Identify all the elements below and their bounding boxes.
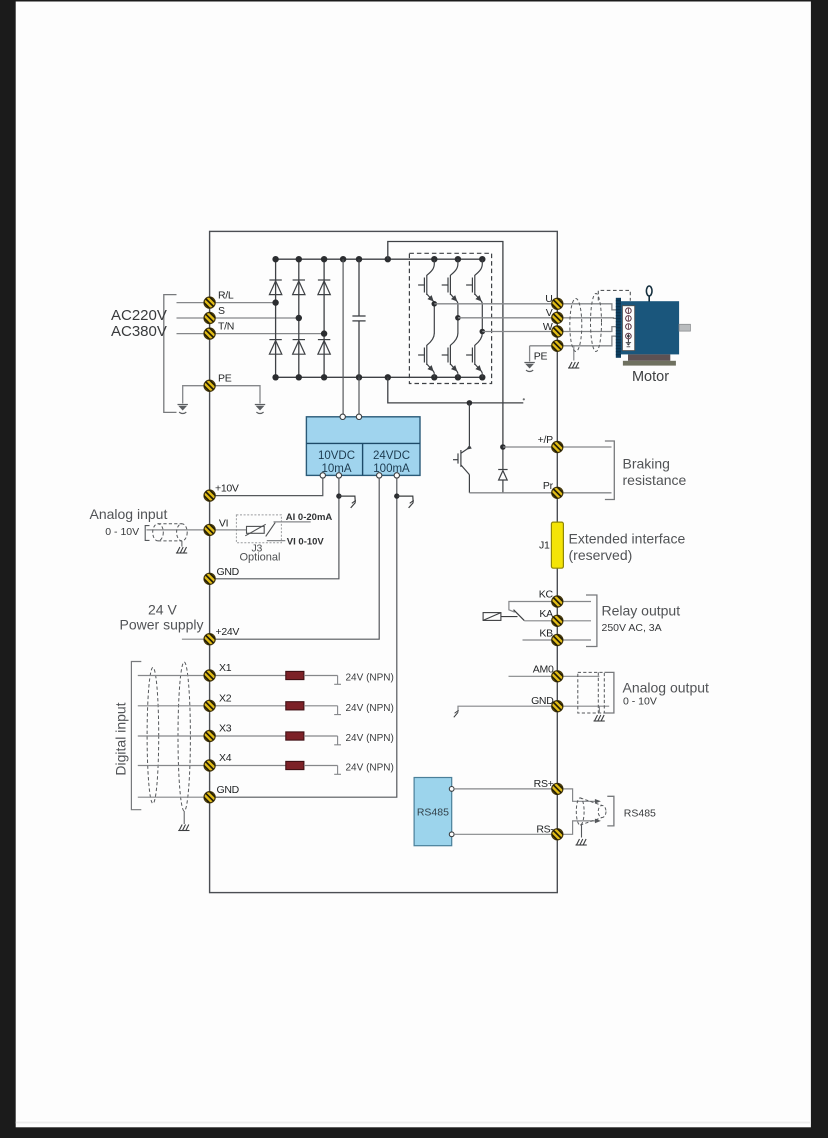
wire PE to motor	[557, 336, 625, 346]
rectifier column 1	[275, 259, 277, 377]
svg-text:VI 0-10V: VI 0-10V	[287, 536, 325, 547]
terminal +10V	[201, 487, 219, 505]
wire KA	[524, 620, 557, 622]
wire V to motor	[557, 317, 625, 320]
svg-text:+10V: +10V	[215, 483, 239, 495]
J3 resistor	[247, 526, 265, 533]
svg-text:X3: X3	[219, 723, 232, 735]
svg-text:24 V: 24 V	[148, 602, 177, 618]
svg-text:Optional: Optional	[240, 552, 281, 564]
svg-text:R/L: R/L	[218, 290, 234, 302]
pin RS+	[449, 787, 454, 792]
svg-text:J1: J1	[539, 540, 550, 552]
tiny end mark	[523, 398, 525, 400]
IGBT Q5 (W high)	[466, 259, 482, 304]
wire RS+ right	[557, 789, 597, 801]
terminal W	[548, 323, 566, 341]
pin PSU top left	[340, 414, 345, 419]
svg-text:24VDC: 24VDC	[373, 450, 410, 462]
page bottom shadow	[16, 1122, 811, 1124]
svg-text:+24V: +24V	[216, 626, 240, 638]
svg-text:KB: KB	[539, 628, 553, 640]
wire W high emitter lead	[481, 304, 483, 332]
terminal V	[548, 309, 566, 327]
diode D2 top col2	[293, 280, 305, 295]
DC- bottom bus	[276, 376, 483, 378]
svg-text:KC: KC	[539, 589, 554, 601]
DC+ top bus	[276, 258, 483, 260]
digital bundle ellipse 1	[147, 668, 159, 804]
svg-text:AC220V: AC220V	[111, 307, 167, 324]
relay coil K1	[483, 613, 517, 621]
wire +/P	[503, 446, 612, 448]
analog output connector dashed	[578, 672, 605, 713]
svg-text:Power supply: Power supply	[120, 617, 204, 633]
wire X2 row	[138, 705, 286, 707]
svg-text:AI 0-20mA: AI 0-20mA	[286, 512, 333, 523]
RS485 module box	[414, 778, 452, 846]
motor ribbed bar	[616, 298, 621, 358]
svg-text:RS485: RS485	[417, 807, 449, 819]
wire KB right stub	[557, 639, 591, 641]
wire GND analog right	[557, 705, 609, 707]
terminal S	[201, 309, 219, 327]
pin PSU 24V ret	[394, 473, 399, 478]
wire T/N input	[177, 333, 325, 335]
junction dots rectifier	[272, 256, 485, 380]
node W	[480, 329, 486, 335]
shield dashed corner	[598, 290, 630, 300]
terminal X3	[201, 727, 219, 745]
svg-text:GND: GND	[217, 784, 240, 796]
wire V phase	[458, 317, 557, 319]
braking resistance bracket	[605, 441, 614, 500]
IGBT module dashed box	[409, 253, 491, 383]
RS485 bracket	[607, 796, 614, 826]
resistor R2	[286, 702, 304, 710]
wire X3 to end	[304, 735, 338, 737]
wire 24V return to GND2	[210, 478, 397, 797]
switching power supply box	[306, 417, 420, 476]
terminal X2	[201, 697, 219, 715]
ground PE right	[255, 405, 265, 414]
pin PSU top right	[356, 414, 361, 419]
svg-text:0 - 10V: 0 - 10V	[623, 696, 657, 708]
node U	[432, 301, 438, 307]
wire VI to J3	[210, 529, 247, 531]
motor eye bolt	[648, 296, 650, 302]
terminal U	[548, 295, 566, 313]
motor base plate	[623, 361, 676, 366]
svg-text:+/P: +/P	[538, 434, 553, 446]
DC link capacitor C1	[352, 259, 365, 377]
svg-text:X4: X4	[219, 752, 232, 764]
wire GND2 left	[138, 796, 210, 798]
svg-text:AM0: AM0	[533, 663, 554, 675]
J3 switch arm	[266, 523, 276, 537]
IGBT Q4 (V low)	[457, 318, 459, 334]
pin PSU 24V out	[377, 473, 382, 478]
relay contact KC fixed	[509, 602, 557, 613]
J3 option box	[236, 515, 281, 543]
node V	[455, 315, 461, 321]
svg-text:T/N: T/N	[218, 321, 234, 333]
svg-text:24V (NPN): 24V (NPN)	[346, 763, 394, 774]
terminal +24V	[201, 630, 219, 648]
hook arrow analog gnd	[454, 710, 459, 717]
wire AM0 right	[557, 675, 599, 677]
AC input bracket	[164, 295, 177, 413]
svg-text:Analog output: Analog output	[623, 680, 710, 696]
svg-text:GND: GND	[531, 695, 554, 707]
wire U to motor	[557, 304, 625, 310]
svg-text:VI: VI	[219, 517, 228, 529]
pin PSU 10V ret	[336, 473, 341, 478]
terminal PE out	[548, 337, 566, 355]
svg-text:Analog input: Analog input	[90, 506, 168, 522]
analog output ground drop	[598, 706, 600, 713]
terminal GND	[201, 570, 219, 588]
wire W phase	[482, 331, 557, 333]
pin RS-	[449, 832, 454, 837]
RS485 shield ellipse big	[576, 798, 584, 825]
resistor R1	[286, 671, 304, 679]
wire DC- branch to brake chopper	[388, 377, 524, 403]
motor shaft	[679, 324, 690, 331]
svg-text:10VDC: 10VDC	[318, 450, 355, 462]
motor terminal panel	[622, 306, 634, 351]
resistor R4	[286, 761, 304, 769]
svg-text:24V (NPN): 24V (NPN)	[346, 703, 394, 714]
motor terminal screws	[626, 308, 632, 339]
rectifier column 2	[298, 259, 300, 377]
wire PE output left to ground	[530, 345, 558, 347]
end stub X4	[334, 766, 341, 775]
wire X1 row	[138, 675, 286, 677]
diode D6 bottom col3	[318, 340, 330, 355]
end stub X1	[334, 676, 341, 685]
terminal T/N	[201, 325, 219, 343]
svg-text:Digital input: Digital input	[113, 702, 129, 775]
wire X1 to end	[304, 675, 338, 677]
wire GND analog left with hook	[458, 706, 557, 712]
RS485 shield ellipse small	[598, 806, 606, 818]
svg-text:RS485: RS485	[624, 808, 656, 820]
svg-text:GND: GND	[217, 566, 240, 578]
wire DC- to power supply	[358, 377, 360, 417]
svg-text:Extended interface: Extended interface	[569, 531, 686, 547]
svg-text:X1: X1	[219, 662, 232, 674]
IGBT Q6 (W low)	[481, 332, 483, 334]
wire W to motor	[557, 327, 625, 332]
wire VI left	[147, 529, 210, 531]
terminal PE	[201, 377, 219, 395]
wire KA right stub	[557, 620, 591, 622]
analog output bracket	[605, 672, 614, 713]
svg-text:V: V	[546, 307, 553, 319]
digital bundle ground	[183, 811, 185, 824]
diode D1 top col1	[269, 280, 281, 295]
brake chopper transistor Q7	[453, 403, 472, 493]
motor panel internal ground	[627, 339, 629, 343]
RS485 shield cone lines	[580, 798, 602, 806]
hook internal 10V	[339, 496, 356, 508]
svg-text:Relay output: Relay output	[602, 603, 681, 619]
analog input shield bracket	[145, 526, 149, 541]
brake diode D7	[498, 447, 507, 493]
extended interface connector J1	[551, 522, 563, 568]
terminal RS+	[548, 780, 566, 798]
analog shield ground	[181, 541, 183, 547]
svg-text:RS-: RS-	[536, 823, 554, 835]
svg-text:X2: X2	[219, 692, 232, 704]
terminal KB	[548, 631, 566, 649]
terminal AM0	[548, 667, 566, 685]
wire X3 row	[138, 735, 286, 737]
main inverter box outline	[210, 231, 558, 892]
terminal GND analog	[548, 697, 566, 715]
terminal VI	[201, 521, 219, 539]
wire 10V return to GND	[210, 478, 339, 579]
wire +24V out	[210, 478, 380, 639]
ground shield motor cable	[568, 362, 579, 368]
IGBT Q2 (U low)	[433, 304, 435, 334]
power supply divider vertical	[362, 443, 364, 475]
ground analog output	[594, 715, 605, 721]
wire +10V out	[210, 478, 323, 496]
diode D5 bottom col2	[293, 340, 305, 355]
wire AI option	[274, 521, 311, 523]
end stub X2	[334, 706, 341, 715]
analog input shield ellipse 2	[177, 524, 188, 541]
digital bundle ellipse 2	[178, 662, 190, 811]
node brake collector	[467, 400, 473, 406]
IGBT Q3 (V high)	[442, 259, 458, 304]
analog shield tube bottom	[158, 540, 182, 542]
wire X4 row	[138, 765, 286, 767]
svg-text:0 - 10V: 0 - 10V	[105, 526, 139, 538]
wire KB	[523, 639, 558, 641]
terminal KA	[548, 612, 566, 630]
svg-text:(reserved): (reserved)	[569, 547, 633, 563]
svg-text:W: W	[543, 321, 553, 333]
node 24V internal	[394, 493, 399, 498]
terminal GND2	[201, 788, 219, 806]
svg-text:PE: PE	[534, 351, 548, 363]
svg-text:24V (NPN): 24V (NPN)	[346, 733, 394, 744]
svg-text:Pr: Pr	[543, 480, 554, 492]
node 10V internal	[336, 493, 341, 498]
analog shield tube top	[158, 523, 182, 525]
wire RS- right	[557, 821, 597, 834]
wire AM0 left	[509, 675, 558, 677]
motor	[616, 286, 691, 385]
svg-text:24V (NPN): 24V (NPN)	[346, 673, 394, 684]
wire X4 to end	[304, 765, 338, 767]
motor pedestal	[628, 354, 670, 360]
terminal RS-	[548, 825, 566, 843]
terminal +/P	[548, 438, 566, 456]
wire X2 to end	[304, 705, 338, 707]
diode D3 top col3	[318, 280, 330, 295]
wire Pr	[469, 492, 611, 494]
svg-text:resistance: resistance	[623, 472, 687, 488]
motor cable shield ellipse 2	[591, 294, 602, 352]
wire RS+	[454, 788, 557, 790]
wire VI option	[267, 540, 286, 542]
wire DC+ to power supply	[342, 259, 344, 417]
RS485 shield ground	[581, 825, 583, 837]
wire RS-	[454, 833, 557, 835]
terminal KC	[548, 593, 566, 611]
svg-text:S: S	[218, 305, 225, 317]
svg-text:PE: PE	[218, 373, 232, 385]
svg-text:Braking: Braking	[623, 456, 670, 472]
wire KC right stub	[557, 601, 591, 603]
power supply divider horizontal	[306, 442, 420, 444]
pin PSU 10V out	[320, 473, 325, 478]
relay arm	[514, 610, 525, 621]
terminal R/L	[201, 294, 219, 312]
ground PE output	[524, 363, 534, 372]
terminal X1	[201, 667, 219, 685]
IGBT Q1 (U high)	[418, 259, 434, 304]
resistor R3	[286, 732, 304, 740]
wire U phase	[434, 303, 557, 305]
shield drain wire	[573, 346, 575, 361]
J3 resistor diagonal	[245, 524, 265, 536]
svg-text:RS+: RS+	[534, 778, 554, 790]
rectifier column 3	[323, 259, 325, 377]
wire PE right with ground	[210, 386, 260, 404]
end stub X3	[334, 736, 341, 745]
svg-text:KA: KA	[539, 608, 553, 620]
ground PE left	[178, 405, 188, 414]
terminal X4	[201, 757, 219, 775]
wire S input	[177, 317, 299, 319]
relay output bracket	[586, 595, 597, 647]
svg-text:250V AC, 3A: 250V AC, 3A	[602, 622, 662, 634]
svg-text:U: U	[545, 293, 552, 305]
terminal Pr	[548, 484, 566, 502]
analog input shield ellipse 1	[153, 524, 164, 541]
motor cable shield ellipse 1	[570, 299, 582, 352]
wire R/L input	[177, 302, 276, 304]
motor body	[621, 301, 679, 354]
wire V high emitter lead	[457, 304, 459, 318]
digital input bracket	[131, 662, 141, 810]
wire +24V left stub	[182, 638, 210, 640]
diode D4 bottom col1	[269, 340, 281, 355]
svg-text:Motor: Motor	[632, 369, 669, 385]
wire PE left with ground	[183, 386, 210, 404]
wire DC+ detour to brake	[388, 242, 503, 448]
hook internal 24V	[397, 496, 414, 508]
svg-text:AC380V: AC380V	[111, 323, 167, 340]
node +/P junction	[500, 444, 506, 450]
